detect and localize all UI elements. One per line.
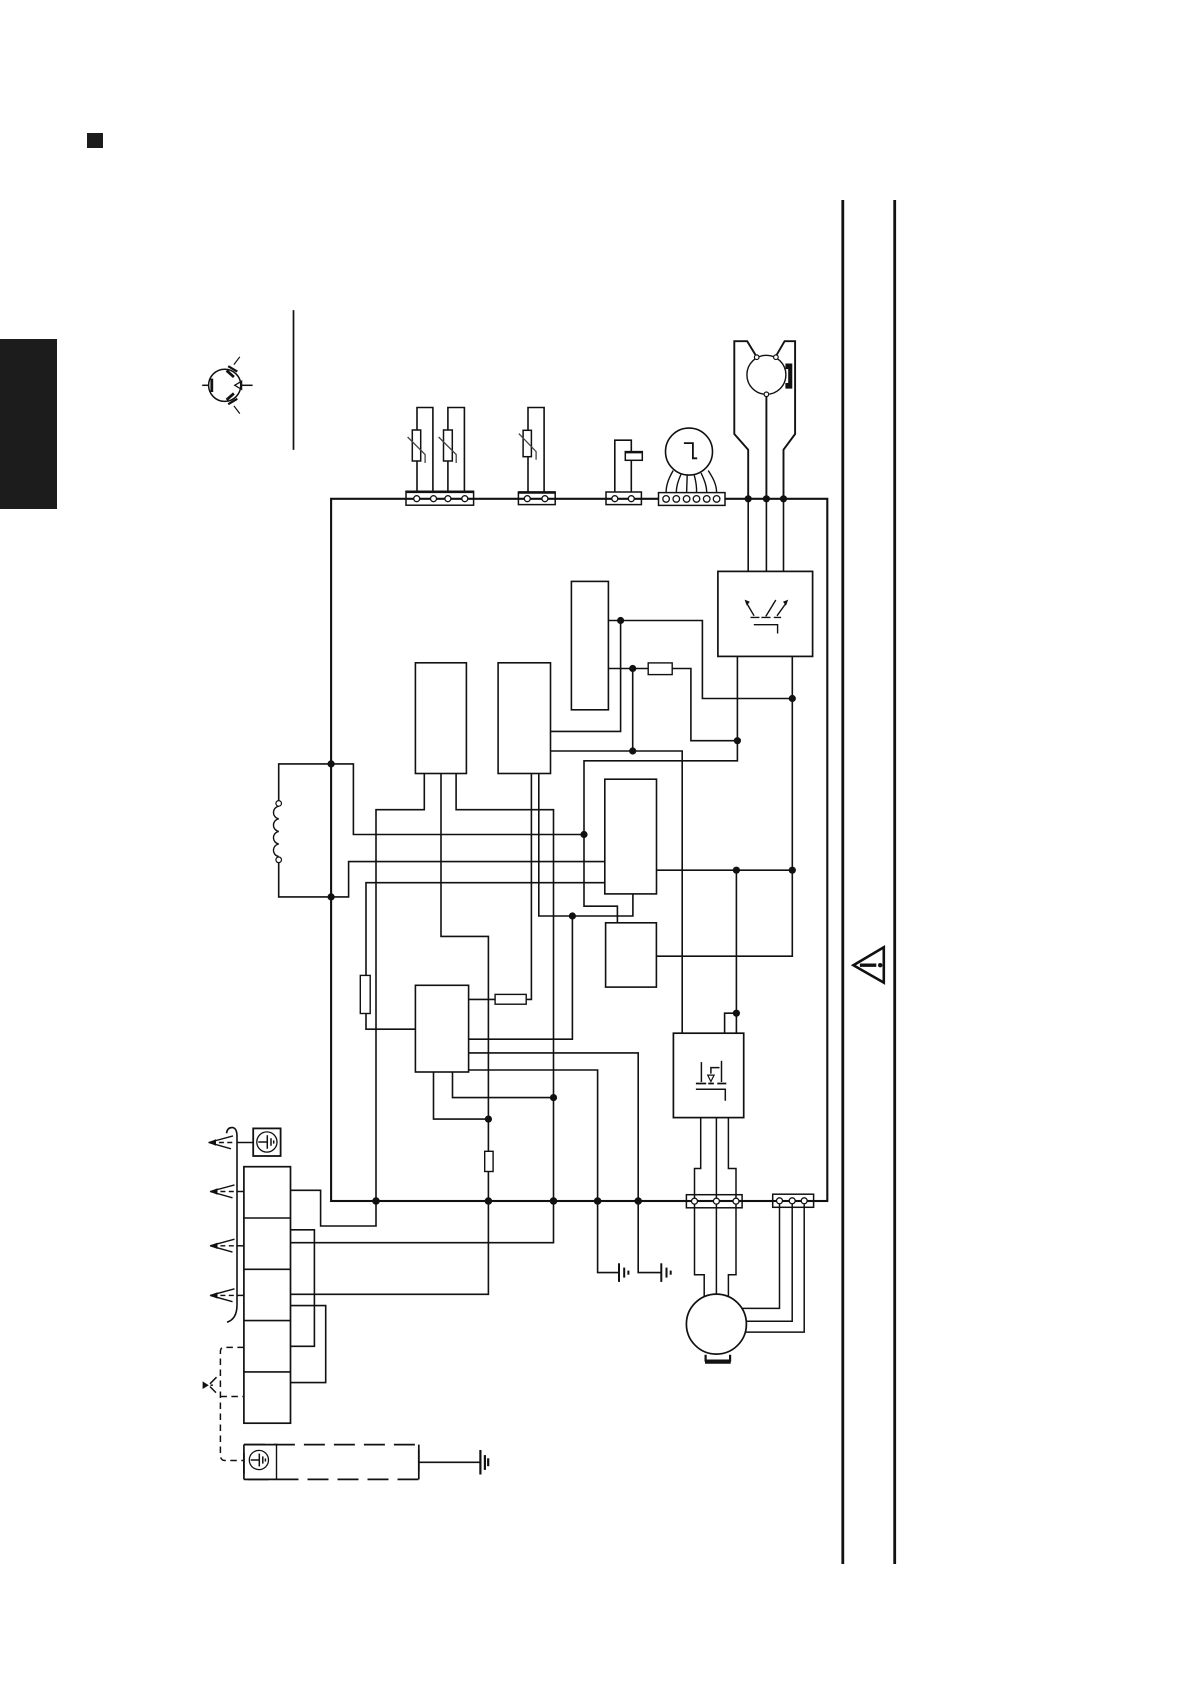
- thermistor TH2 strike: [439, 437, 457, 463]
- IC block G: [415, 985, 468, 1072]
- compressor mount bar: [705, 1359, 731, 1363]
- wire: block B right to contact line: [551, 621, 621, 732]
- terminal strip CN1 (4P): [406, 491, 474, 505]
- earth symbol 3: [480, 1450, 488, 1475]
- 4-way valve symbol (legend): [202, 357, 252, 414]
- signal arrow 4: [210, 1289, 235, 1302]
- fan motor winding mark: [684, 443, 697, 458]
- wire: reactor bottom node to block D: [331, 862, 605, 897]
- protective earth terminal box: [253, 1128, 280, 1156]
- wires compressor motor to CN6: [742, 1204, 804, 1332]
- terminal strip CN5 (3P): [686, 1195, 742, 1208]
- wire: node branch to block G right: [469, 916, 573, 1039]
- IC block E: [606, 923, 657, 987]
- relay unit 52C: [718, 571, 813, 656]
- wires CN5 to compressor motor: [695, 1205, 737, 1298]
- wire: block D via fuse F2 to block G: [366, 883, 605, 1029]
- wire: bus down to power module: [725, 870, 737, 1033]
- wire: block B to fuse line of block G: [469, 774, 532, 1000]
- wire: relay right leg to block E right: [656, 656, 792, 956]
- terminal strip CN6 (3P): [773, 1194, 814, 1207]
- stack side loop 1: [291, 1230, 315, 1347]
- pressure switch body: [625, 452, 642, 461]
- wire: block D right bus: [657, 869, 793, 871]
- wire: relay left leg to block E: [584, 656, 737, 922]
- section marker square: [87, 133, 103, 148]
- wire: block G bottom jumper 2: [453, 1072, 554, 1098]
- earth symbol 1: [619, 1263, 628, 1282]
- earth-in-circle inside sensor box: [249, 1450, 268, 1469]
- thermistor TH1 body: [412, 430, 420, 461]
- wire: fuse node drop: [632, 669, 634, 752]
- remote sensor dashed link: [220, 1347, 244, 1460]
- thermistor TH1 strike: [408, 437, 426, 463]
- IGBT symbol: [696, 1061, 726, 1101]
- wire: block C to relay right leg: [608, 621, 792, 699]
- junction dots: [328, 495, 796, 1205]
- power module block: [673, 1033, 743, 1117]
- wire: block C through fuse F1 to relay left leg: [608, 669, 737, 741]
- right rule line 2: [893, 200, 896, 1564]
- wire sensor box to earth 3: [419, 1461, 481, 1463]
- signal arrow 2: [210, 1185, 235, 1198]
- reactor terminals: [276, 801, 282, 807]
- compressor motor windings circle: [747, 355, 786, 394]
- IC block A: [415, 663, 466, 774]
- earth symbol 2: [661, 1263, 670, 1282]
- IC block D: [605, 779, 657, 894]
- wire: block G bottom jumper 1: [434, 1072, 489, 1119]
- terminal strip CN2 (2P): [518, 492, 555, 505]
- wire: block G to earth 1: [469, 1070, 619, 1273]
- thermistor TH3 strike: [519, 434, 536, 460]
- compressor motor MC: [686, 1294, 746, 1354]
- fuse F4: [495, 994, 526, 1004]
- compressor shell outline: [734, 341, 795, 499]
- thermistor TH3 body: [523, 430, 531, 456]
- compressor internal protector (black): [785, 364, 792, 389]
- fuse F1: [648, 663, 672, 675]
- compressor terminal pins: [754, 355, 778, 397]
- wire: block G to earth 2: [469, 1053, 662, 1273]
- fuse F2: [360, 975, 370, 1013]
- terminal strip CN3 (2P): [606, 492, 641, 505]
- thermistor TH1 lead loop: [417, 408, 433, 493]
- stack side loop 2: [291, 1306, 326, 1383]
- signal fork symbol: [203, 1381, 209, 1389]
- power module output leads: [695, 1118, 737, 1198]
- wire: block A pin2 to display unit cell3: [291, 774, 489, 1295]
- fan motor FM: [666, 428, 713, 475]
- thermistor TH2 body: [444, 430, 453, 461]
- wire: reactor top node across: [331, 764, 584, 835]
- wire: block B to block D bottom: [539, 774, 633, 917]
- warning triangle: [853, 947, 883, 982]
- wire: block A pin1 to display unit cell1: [291, 774, 425, 1227]
- display / terminal unit stack: [244, 1167, 291, 1424]
- reactor L loop: [279, 764, 331, 801]
- terminal strip CN4 (6P): [659, 493, 726, 506]
- thermistor TH3 lead loop: [528, 408, 544, 493]
- IC block C (top middle): [571, 581, 608, 709]
- relay contact symbol: [746, 600, 786, 634]
- legend separator line: [293, 310, 295, 450]
- signal arrow 3: [210, 1239, 235, 1252]
- wires compressor to relay unit: [748, 499, 783, 572]
- fuse F3: [485, 1151, 493, 1171]
- page edge tab: [0, 339, 57, 509]
- IC block B: [498, 663, 550, 774]
- wire: block A pin3 to display unit cell2: [291, 774, 554, 1243]
- pressure switch lead loop: [615, 440, 632, 492]
- reactor coil: [273, 806, 278, 856]
- signal brace: [227, 1128, 238, 1323]
- remote sensor dashed box: [244, 1445, 419, 1480]
- thermistor TH2 lead loop: [448, 408, 465, 493]
- signal arrow 1: [209, 1136, 236, 1149]
- wire: block B right to power module: [551, 751, 683, 1033]
- fan motor lead wires: [666, 471, 717, 493]
- right rule line 1: [841, 200, 844, 1564]
- outdoor control PCB outline: [331, 499, 827, 1201]
